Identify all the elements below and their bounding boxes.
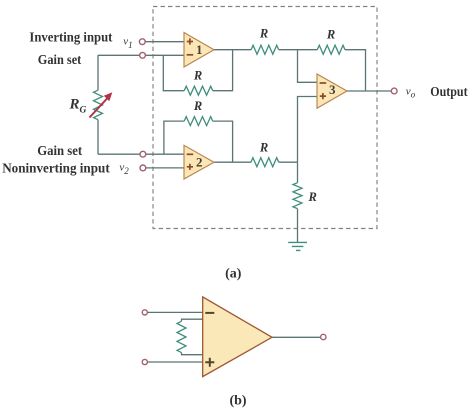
resistor RG zigzag	[94, 90, 103, 120]
resistor R feedback U2	[184, 117, 213, 126]
op-amp b minus	[205, 312, 214, 314]
wire b noninverting input	[148, 361, 203, 363]
terminal gain set bottom	[140, 151, 146, 157]
svg-text:Output: Output	[430, 84, 468, 99]
resistor b RG zigzag	[177, 321, 186, 352]
svg-text:3: 3	[329, 82, 336, 97]
wire gain-set bottom (RG to U2 -)	[98, 153, 185, 155]
svg-text:Gain set: Gain set	[37, 143, 82, 158]
wire U1 output row	[214, 50, 366, 91]
svg-text:Inverting input: Inverting input	[29, 30, 112, 45]
svg-text:(a): (a)	[225, 267, 242, 282]
terminal v1	[139, 39, 145, 45]
op-amp U2	[184, 145, 214, 179]
resistor R to ground	[293, 183, 302, 209]
svg-text:R: R	[326, 28, 335, 42]
ground	[288, 242, 307, 250]
svg-text:R: R	[259, 27, 268, 41]
wire b RG stub top	[182, 319, 204, 321]
wire b output	[272, 336, 321, 338]
svg-text:1: 1	[196, 42, 203, 57]
op-amp b plus	[205, 358, 214, 367]
terminal output vo	[391, 88, 397, 94]
wire U3 + input branch	[298, 97, 318, 163]
resistor R series U1 output	[251, 45, 279, 54]
wire U1 feedback tap	[163, 50, 232, 91]
wire U3 output	[347, 90, 392, 92]
svg-text:Noninverting input: Noninverting input	[2, 161, 110, 176]
svg-text:R: R	[259, 141, 268, 155]
op-amp b triangle	[203, 297, 272, 377]
terminal b input bottom	[142, 359, 147, 364]
svg-text:R: R	[193, 99, 202, 113]
resistor R series U2 output	[251, 158, 279, 167]
op-amp U1	[184, 33, 214, 68]
wire vertical R branch to ground	[297, 162, 299, 242]
wire b inverting input	[148, 311, 203, 313]
svg-text:R: R	[193, 69, 202, 83]
wire gain-set top (terminal row to U1 -)	[98, 54, 185, 56]
wire U2 feedback tap	[164, 121, 233, 162]
svg-text:Gain set: Gain set	[38, 52, 82, 67]
svg-text:(b): (b)	[229, 394, 246, 409]
wire U2 output row	[214, 161, 298, 163]
op-amp U3	[317, 74, 347, 108]
terminal v2	[140, 165, 146, 171]
terminal b input top	[142, 310, 147, 315]
terminal gain set top	[140, 52, 146, 58]
wire left branch vertical (RG branch)	[97, 55, 99, 154]
dashed enclosure box	[153, 7, 377, 229]
resistor R feedback U3	[317, 45, 345, 54]
wire v1 input to U1 +	[145, 41, 185, 43]
RG wiper arrow	[90, 98, 109, 118]
resistor R feedback U1	[184, 86, 213, 95]
terminal b output	[321, 334, 326, 339]
svg-text:R: R	[308, 190, 317, 204]
wire b RG stub bottom	[182, 353, 204, 355]
svg-text:2: 2	[196, 154, 203, 169]
wire v2 input to U2 +	[146, 167, 185, 169]
